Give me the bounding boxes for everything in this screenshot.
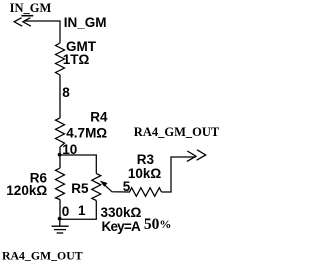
svg-text:R4: R4 — [90, 110, 108, 125]
svg-text:1: 1 — [78, 203, 86, 218]
potentiometer R5 body — [92, 174, 101, 201]
ground — [52, 219, 69, 233]
svg-text:Key=A: Key=A — [102, 219, 141, 234]
potentiometer R5 wiper arrow — [103, 183, 130, 192]
resistor R3 — [130, 188, 162, 197]
svg-text:1TΩ: 1TΩ — [63, 52, 90, 67]
svg-text:4.7MΩ: 4.7MΩ — [66, 126, 107, 141]
wire R5 to ground rail — [60, 201, 96, 220]
wire node 10 to R5 top — [60, 155, 96, 174]
wire GMT to R4 — [59, 75, 61, 118]
resistor R6 — [56, 168, 65, 200]
junction dot ground — [58, 217, 62, 221]
input off-page connector arrow — [14, 18, 31, 27]
svg-text:RA4_GM_OUT: RA4_GM_OUT — [134, 125, 220, 139]
output off-page connector arrow — [187, 150, 206, 162]
svg-text:120kΩ: 120kΩ — [6, 183, 47, 198]
svg-text:10kΩ: 10kΩ — [128, 166, 162, 181]
svg-text:IN_GM: IN_GM — [10, 1, 52, 15]
svg-text:330kΩ: 330kΩ — [101, 205, 142, 220]
resistor GMT — [56, 43, 65, 75]
svg-text:RA4_GM_OUT: RA4_GM_OUT — [2, 249, 83, 263]
svg-text:8: 8 — [62, 85, 70, 100]
svg-text:IN_GM: IN_GM — [64, 15, 107, 30]
wire R4 to node 10 and R6 — [59, 147, 61, 168]
svg-text:R5: R5 — [71, 181, 89, 196]
wire R6 to ground rail — [59, 200, 61, 220]
wire input to node — [24, 21, 60, 43]
svg-text:0: 0 — [62, 204, 70, 219]
wire R3 to output — [162, 157, 197, 192]
resistor R4 — [56, 118, 65, 147]
junction dot node 10 — [58, 153, 62, 157]
svg-text:R3: R3 — [137, 152, 155, 167]
svg-text:50%: 50% — [144, 216, 172, 233]
